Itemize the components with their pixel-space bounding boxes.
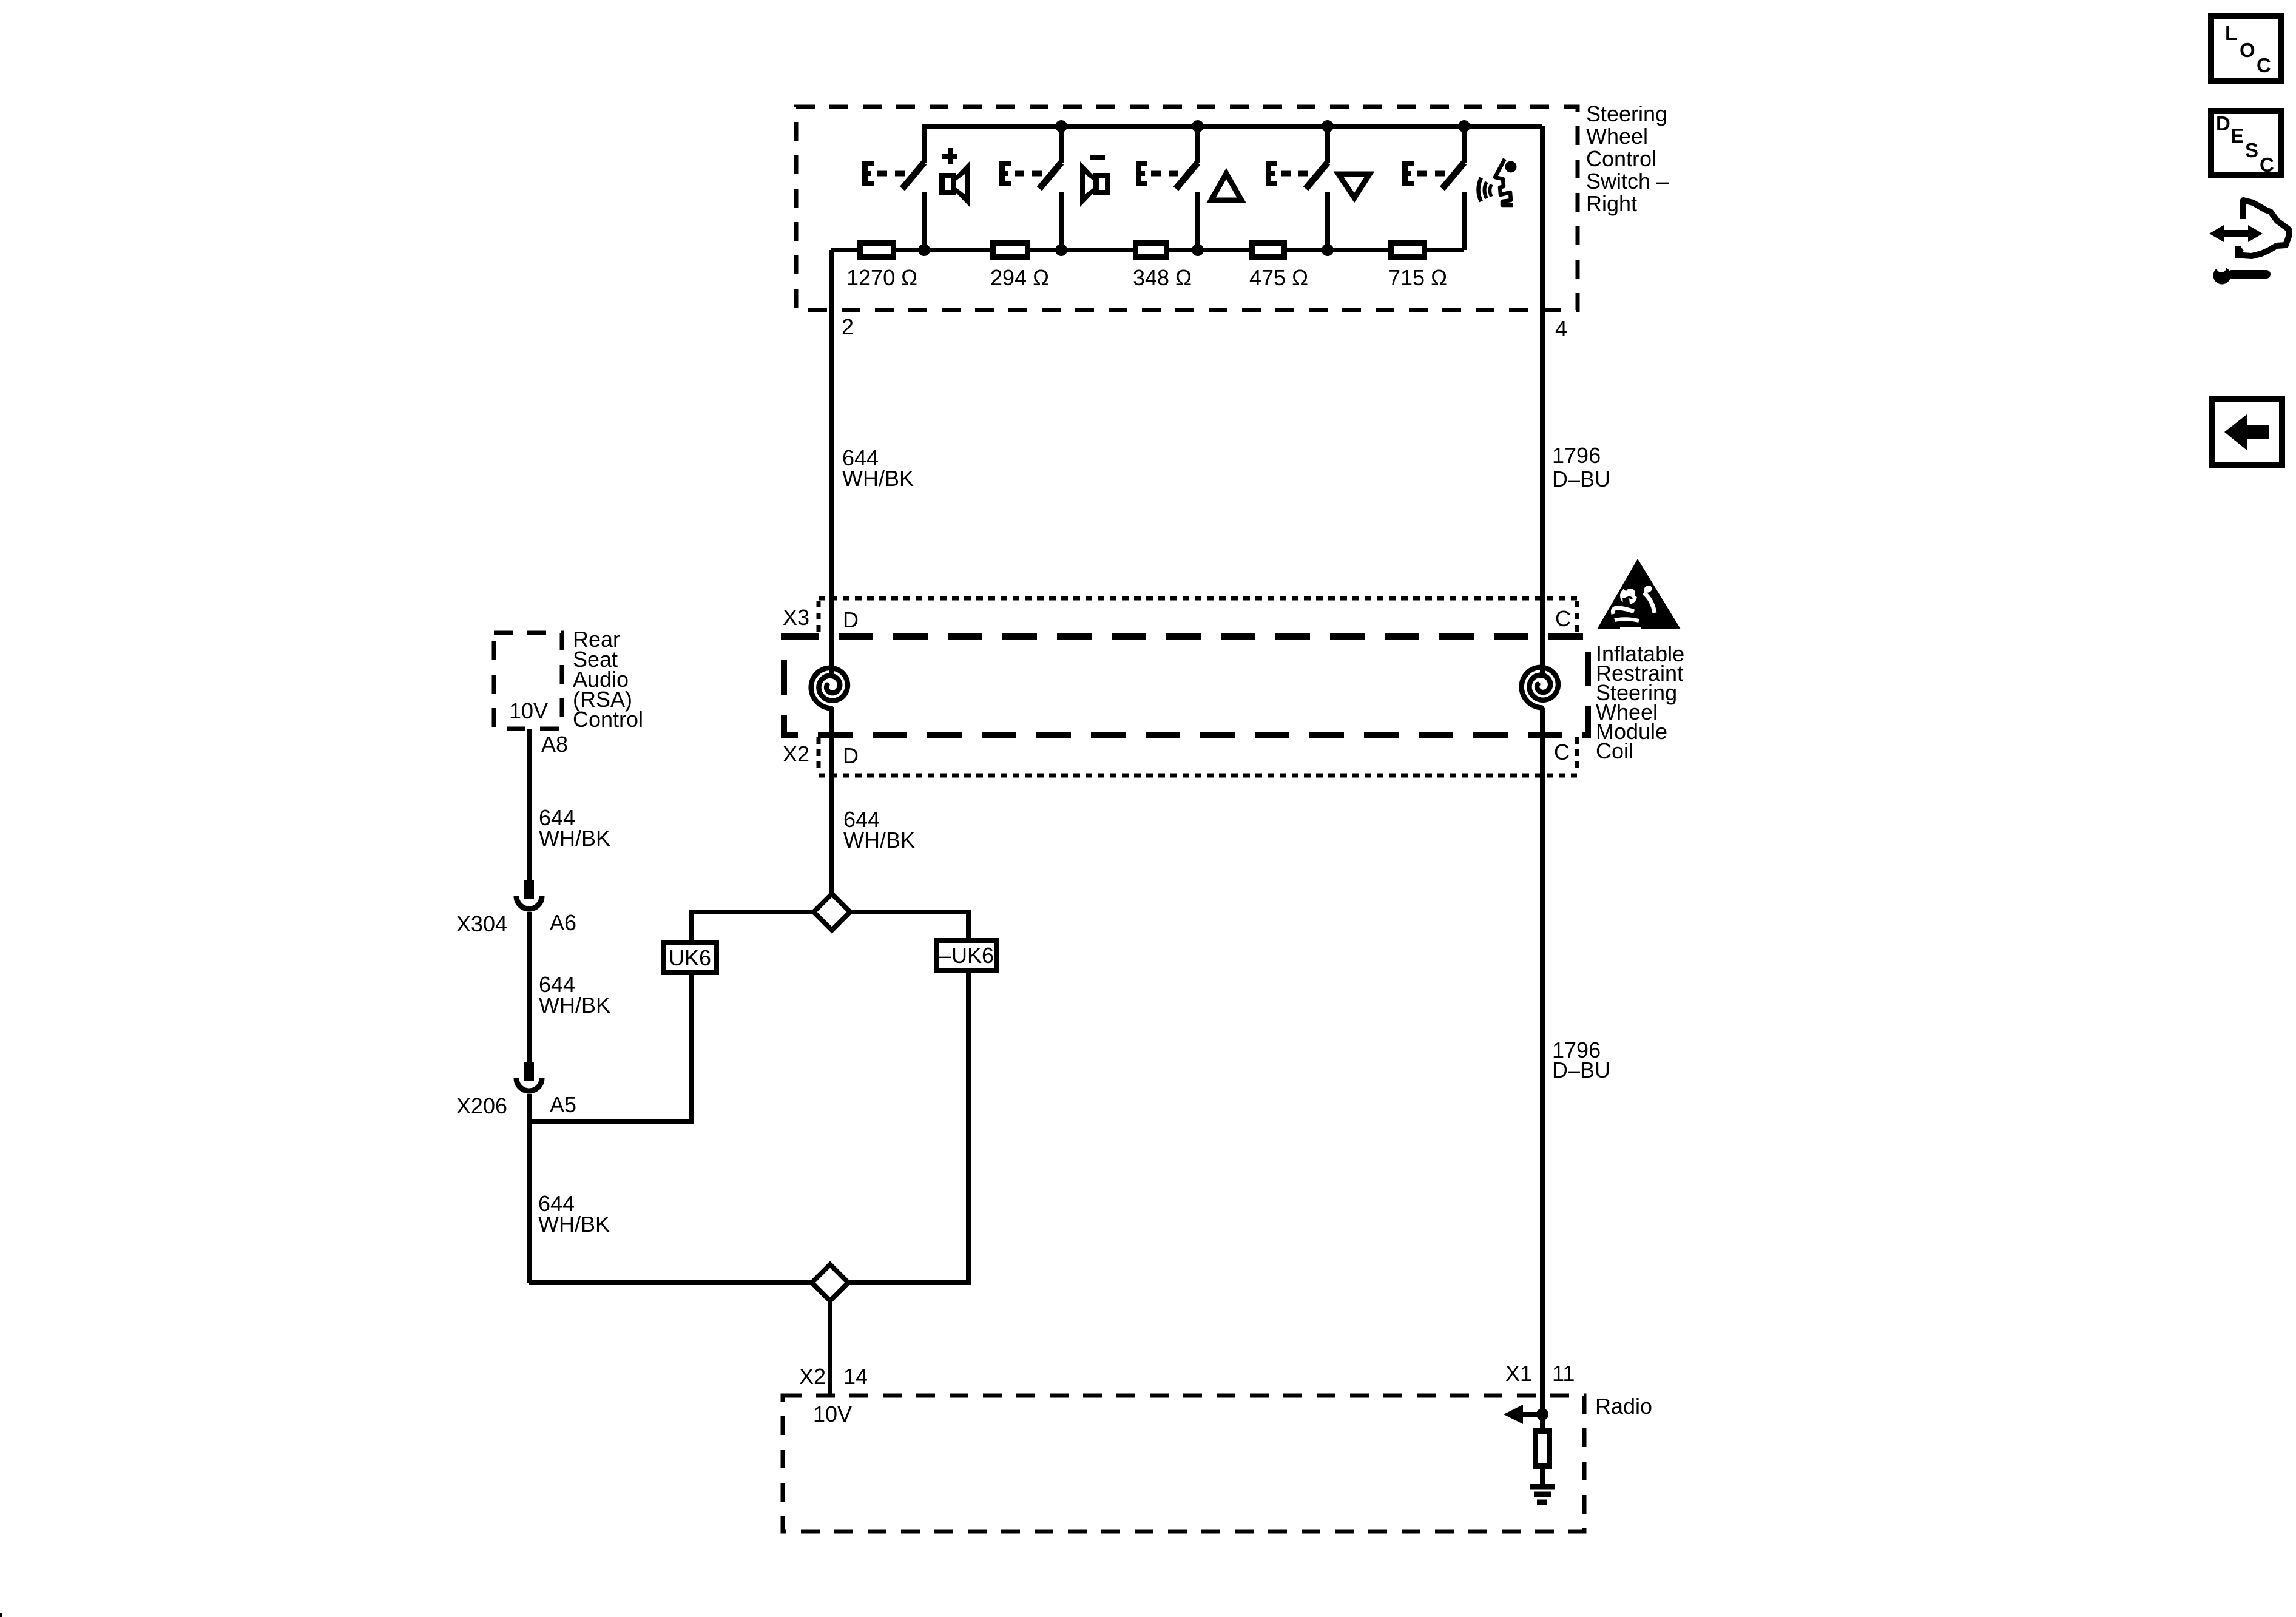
mark: bottom left speck — [0, 1613, 2, 1617]
wire: lower diamond down to radio X2-14 — [828, 1301, 832, 1396]
splice: upper diamond — [814, 894, 850, 930]
svg-text:11: 11 — [1552, 1361, 1575, 1386]
node: top bus junction dots — [1055, 120, 1470, 132]
switch SW5: actuator dashes — [1417, 171, 1445, 177]
svg-text:D: D — [843, 743, 859, 768]
svg-text:Control: Control — [573, 707, 643, 732]
svg-text:WH/BK: WH/BK — [539, 826, 610, 851]
wire: top bus inside switch box — [924, 126, 1542, 163]
wire: bottom horizontal into lower diamond — [529, 1280, 812, 1285]
switch SW2: bottom stub — [1059, 192, 1064, 250]
svg-text:E: E — [2230, 124, 2244, 147]
switch SW4: E actuator glyph — [1266, 161, 1277, 186]
switch SW4: actuator dashes — [1281, 171, 1308, 177]
wire: 644 WH/BK from coil down to splice diamond — [829, 709, 834, 894]
svg-text:O: O — [2240, 39, 2255, 61]
icon: connector / wrench tool — [2209, 200, 2289, 285]
switch SW5: top stub — [1462, 126, 1467, 163]
switch SW4: blade — [1306, 163, 1328, 189]
svg-text:2: 2 — [842, 314, 854, 339]
switch SW2: E actuator glyph — [999, 161, 1011, 186]
svg-text:A8: A8 — [541, 732, 568, 757]
splice: lower diamond — [812, 1264, 848, 1301]
wire: 644 WH/BK from pin 2 down to coil — [829, 250, 834, 675]
wire: arrow pointing left inside radio — [1520, 1412, 1542, 1417]
svg-text:C: C — [2260, 154, 2274, 176]
svg-text:715 Ω: 715 Ω — [1388, 265, 1447, 290]
svg-text:D: D — [2216, 112, 2230, 135]
connector row X3 (dotted box) — [819, 598, 1577, 635]
resistor R3 348 ohm — [1136, 243, 1167, 257]
svg-text:294 Ω: 294 Ω — [990, 265, 1049, 290]
svg-text:C: C — [1554, 740, 1570, 765]
svg-text:X3: X3 — [783, 605, 809, 630]
svg-text:Wheel: Wheel — [1586, 124, 1648, 149]
switch SW3: E actuator glyph — [1136, 161, 1147, 186]
component box: Rear Seat Audio (RSA) Control (dashed) — [494, 633, 562, 729]
svg-text:A5: A5 — [550, 1092, 576, 1117]
resistor R5 715 ohm — [1391, 243, 1425, 257]
option box UK6 — [664, 943, 717, 973]
svg-text:Steering: Steering — [1586, 101, 1667, 126]
wire: -UK6 down to lower diamond — [848, 973, 968, 1283]
wire: 1796 D-BU from pin 4 down to coil — [1540, 126, 1545, 675]
svg-text:X2: X2 — [783, 741, 809, 766]
switch SW3: top stub — [1195, 126, 1200, 163]
svg-text:Coil: Coil — [1596, 738, 1633, 763]
svg-text:X1: X1 — [1505, 1361, 1532, 1386]
svg-text:D–BU: D–BU — [1552, 467, 1610, 491]
svg-text:X2: X2 — [799, 1364, 826, 1389]
wire: branch to UK6 — [529, 975, 691, 1121]
switch SW1: E actuator glyph — [862, 161, 874, 186]
svg-text:X206: X206 — [456, 1093, 507, 1118]
svg-text:WH/BK: WH/BK — [539, 993, 610, 1018]
svg-text:14: 14 — [843, 1364, 868, 1389]
svg-text:C: C — [2257, 54, 2271, 76]
svg-text:Control: Control — [1586, 146, 1656, 171]
svg-text:D–BU: D–BU — [1552, 1058, 1610, 1082]
wire: 644 WH/BK X304 to X206 — [527, 912, 532, 1062]
svg-text:S: S — [2245, 139, 2258, 161]
switch SW1: actuator dashes — [877, 171, 905, 177]
wire: 644 WH/BK from RSA pin A8 — [527, 729, 532, 880]
svg-text:C: C — [1555, 606, 1571, 631]
wire: bottom resistor ladder bus — [831, 248, 1464, 252]
svg-text:WH/BK: WH/BK — [538, 1212, 610, 1237]
svg-text:1796: 1796 — [1552, 443, 1601, 468]
option box -UK6 — [936, 940, 997, 970]
component box: Steering Wheel Control Switch - Right (dashed) — [796, 107, 1578, 310]
resistor R4 475 ohm — [1252, 243, 1285, 257]
svg-text:A6: A6 — [550, 910, 576, 935]
switch SW2: blade — [1039, 163, 1061, 189]
svg-text:Switch –: Switch – — [1586, 169, 1669, 194]
wire: resistor to ground — [1540, 1469, 1545, 1485]
svg-text:L: L — [2225, 22, 2237, 44]
svg-text:Radio: Radio — [1595, 1394, 1652, 1419]
switch SW1: bottom stub — [922, 192, 927, 250]
component box: Radio (dashed) — [783, 1396, 1584, 1531]
icon button: back arrow — [2212, 399, 2282, 465]
wire: 644 WH/BK X206 down to splice level — [527, 1094, 532, 1283]
switch SW5: blade — [1442, 163, 1464, 189]
switch SW1: blade — [902, 163, 924, 189]
switch SW5: bottom stub — [1462, 192, 1467, 250]
ground symbol — [1530, 1487, 1555, 1502]
wire: 1796 D-BU from coil down to radio — [1540, 708, 1545, 1414]
resistor R2 294 ohm — [993, 243, 1028, 257]
svg-text:WH/BK: WH/BK — [843, 828, 915, 852]
svg-text:10V: 10V — [813, 1402, 852, 1426]
icon: seek down triangle — [1339, 174, 1369, 198]
connector row X2 (dotted box) — [819, 737, 1577, 775]
connector X206 (inline) — [516, 1062, 542, 1091]
connector X304 (inline) — [516, 880, 542, 909]
switch SW3: bottom stub — [1195, 192, 1200, 250]
icon: SIR warning triangle (seat/airbag) — [1597, 559, 1681, 629]
svg-text:10V: 10V — [509, 698, 548, 723]
svg-text:D: D — [843, 607, 859, 632]
svg-text:Right: Right — [1586, 191, 1637, 216]
wire: X2 D down to upper diamond — [829, 775, 834, 894]
icon button: DESC — [2211, 111, 2281, 176]
switch SW5: E actuator glyph — [1402, 161, 1414, 186]
svg-text:X304: X304 — [456, 911, 507, 936]
switch SW2: actuator dashes — [1015, 171, 1042, 177]
node: junction dot inside radio — [1536, 1408, 1548, 1420]
icon: seek up triangle — [1211, 174, 1241, 200]
component box: Inflatable Restraint Steering Wheel Module Coil (dashed) — [784, 636, 1588, 735]
coil: SIR coil right spiral — [1522, 667, 1558, 708]
icon: voice recognition head with sound waves — [1479, 159, 1517, 205]
svg-text:1270 Ω: 1270 Ω — [846, 265, 917, 290]
resistor R1 1270 ohm — [860, 243, 894, 257]
svg-text:475 Ω: 475 Ω — [1249, 265, 1308, 290]
node: bottom bus junction dots — [918, 244, 1334, 256]
svg-text:–UK6: –UK6 — [939, 943, 994, 968]
wire: UK6 top to upper diamond — [691, 912, 814, 940]
wire: upper diamond to -UK6 — [850, 912, 968, 938]
switch SW4: bottom stub — [1325, 192, 1330, 250]
switch SW3: blade — [1176, 163, 1198, 189]
svg-text:348 Ω: 348 Ω — [1133, 265, 1192, 290]
icon: volume down speaker with minus — [1080, 155, 1110, 207]
coil: SIR coil left spiral — [811, 668, 848, 709]
switch SW4: top stub — [1325, 126, 1330, 163]
svg-text:4: 4 — [1555, 316, 1567, 341]
resistor inside radio — [1540, 1414, 1545, 1428]
icon: volume up speaker with plus — [939, 148, 970, 207]
switch SW2: top stub — [1059, 126, 1064, 163]
icon button: LOC — [2211, 16, 2281, 81]
svg-text:WH/BK: WH/BK — [842, 466, 914, 491]
switch SW3: actuator dashes — [1151, 171, 1178, 177]
svg-text:UK6: UK6 — [669, 945, 711, 970]
